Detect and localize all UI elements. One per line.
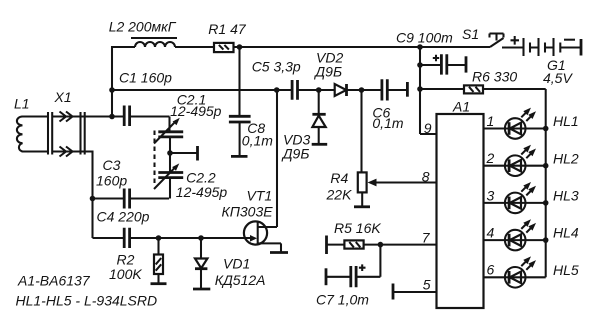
svg-text:C2.2: C2.2 <box>186 169 216 185</box>
svg-text:L2 200мкГ: L2 200мкГ <box>109 19 177 35</box>
wire L2 to R1 <box>175 46 214 48</box>
wire C5 to VD2 <box>298 89 336 91</box>
wire X1 bottom to corner <box>85 152 93 239</box>
terminal bar R5 left <box>325 236 328 255</box>
node dot HL2 <box>543 163 549 169</box>
svg-text:R5 16K: R5 16K <box>334 220 381 236</box>
node dot VD1 <box>198 235 204 241</box>
terminal bar VD1 <box>193 288 210 291</box>
svg-text:R4: R4 <box>330 170 348 186</box>
L2 core line <box>131 37 177 39</box>
svg-text:22K: 22K <box>326 187 353 203</box>
variable capacitor C2.2 <box>154 153 183 199</box>
svg-text:HL5: HL5 <box>553 262 579 278</box>
svg-text:C9 100m: C9 100m <box>396 30 453 46</box>
svg-text:0,1m: 0,1m <box>242 132 273 148</box>
LED rail <box>545 89 547 277</box>
node dot C2 rotor <box>167 150 173 156</box>
node dot row y90 <box>109 87 115 93</box>
capacitor C5 <box>292 80 297 100</box>
wire C7 riser <box>379 245 381 277</box>
wire R5 to pin7 <box>364 244 437 246</box>
wire L1 bottom lead <box>22 150 49 152</box>
wire L1 top lead <box>22 115 49 117</box>
svg-text:R6 330: R6 330 <box>472 69 517 85</box>
svg-text:C4 220p: C4 220p <box>97 209 150 225</box>
wire top rail left <box>112 46 135 48</box>
terminal bar VT1 source <box>270 251 288 254</box>
wire row y90 <box>112 89 292 91</box>
svg-text:VT1: VT1 <box>247 188 273 204</box>
transistor VT1 <box>244 90 281 253</box>
wire rail R1 to S1 <box>234 46 491 48</box>
node dot R2 <box>156 235 162 241</box>
wire X1 top to C1 <box>52 115 124 117</box>
node dot row1/left vertical <box>109 114 115 120</box>
connector X1 <box>48 112 85 157</box>
terminal bar C8 <box>231 155 248 158</box>
LED HL3 <box>484 182 546 213</box>
terminal bar VD3 <box>312 143 328 146</box>
node dot detector out <box>359 87 365 93</box>
terminal bar C6 <box>406 82 409 97</box>
capacitor C7 <box>326 264 380 287</box>
terminal bar C7 left <box>325 268 328 285</box>
node dot C3 row <box>90 196 96 202</box>
diode VD1 <box>195 238 207 289</box>
svg-text:12-495p: 12-495p <box>170 103 222 119</box>
svg-text:7: 7 <box>422 230 431 246</box>
inductor L2 <box>135 42 175 47</box>
svg-text:100K: 100K <box>109 266 142 282</box>
capacitor C3 <box>124 189 129 209</box>
svg-text:HL2: HL2 <box>553 150 579 166</box>
svg-text:2: 2 <box>486 150 495 166</box>
capacitor C1 <box>124 106 129 127</box>
node dot HL4 <box>543 237 549 243</box>
left vertical wire <box>111 46 113 117</box>
switch S1 <box>490 34 524 48</box>
svg-text:C1 160p: C1 160p <box>119 69 172 85</box>
svg-text:HL1: HL1 <box>553 113 579 129</box>
svg-text:1: 1 <box>487 113 495 129</box>
svg-text:КП303Е: КП303Е <box>222 204 274 220</box>
svg-text:S1: S1 <box>462 26 479 42</box>
node dot VT1 drain <box>274 87 280 93</box>
node dot rail/supply <box>417 44 423 50</box>
capacitor C4 <box>124 228 129 248</box>
svg-text:R1 47: R1 47 <box>208 21 247 37</box>
node dot VD3 <box>316 87 322 93</box>
wire C3 row <box>93 197 170 199</box>
resistor R6 <box>420 85 546 93</box>
svg-text:X1: X1 <box>54 89 72 105</box>
node dot R6 tap <box>417 86 423 92</box>
svg-text:C7 1,0m: C7 1,0m <box>316 291 369 307</box>
resistor R2 <box>154 238 163 284</box>
wire C6 right <box>387 89 407 91</box>
wire pin 9 <box>420 133 437 135</box>
svg-text:КД512А: КД512А <box>215 272 266 288</box>
resistor R5 <box>327 240 364 248</box>
LED HL5 <box>484 256 546 287</box>
svg-text:3: 3 <box>487 187 495 203</box>
variable capacitor C2.1 <box>154 118 183 153</box>
svg-text:4,5V: 4,5V <box>543 70 573 86</box>
wire C1 to C2.1 <box>130 115 170 117</box>
LED HL4 <box>484 219 546 250</box>
pin 5 wire <box>393 291 437 293</box>
terminal bar G1 <box>580 39 583 56</box>
svg-text:0,1m: 0,1m <box>372 115 403 131</box>
capacitor C6 <box>382 79 387 100</box>
svg-text:5: 5 <box>423 277 431 293</box>
wire X1 bottom row <box>52 150 84 152</box>
LED HL1 <box>484 108 546 139</box>
wire rotor to bar <box>170 152 198 154</box>
capacitor C9 <box>420 54 466 74</box>
svg-text:12-495p: 12-495p <box>176 184 228 200</box>
inductor L1 <box>17 117 23 152</box>
battery G1 <box>511 36 582 56</box>
diode VD2 <box>335 84 347 96</box>
mechanical link C2 (dashed) <box>153 131 155 185</box>
svg-text:HL4: HL4 <box>553 225 579 241</box>
terminal bar R2 <box>151 282 167 285</box>
node dot HL3 <box>543 200 549 206</box>
node dot pin7 <box>378 242 384 248</box>
svg-text:160p: 160p <box>96 173 127 189</box>
terminal bar R4 <box>354 205 370 208</box>
svg-text:Д9Б: Д9Б <box>281 146 310 162</box>
terminal bar pin5 <box>392 284 395 300</box>
svg-text:HL3: HL3 <box>553 188 579 204</box>
svg-text:6: 6 <box>487 262 495 278</box>
svg-text:C5 3,3p: C5 3,3p <box>252 59 301 75</box>
resistor R1 <box>214 43 234 52</box>
svg-text:4: 4 <box>487 225 495 241</box>
wire VD2 to C6 <box>347 89 382 91</box>
supply vertical <box>419 47 421 134</box>
potentiometer R4 <box>358 90 437 207</box>
LED HL2 <box>484 145 546 176</box>
svg-text:A1-BA6137: A1-BA6137 <box>17 273 91 289</box>
wire C2.1 top lead <box>168 117 170 132</box>
node dot C9 tap <box>417 62 423 68</box>
svg-text:C3: C3 <box>103 157 121 173</box>
node dot HL1 <box>543 126 549 132</box>
svg-text:VD1: VD1 <box>223 256 250 272</box>
capacitor C8 <box>229 116 251 156</box>
svg-text:9: 9 <box>424 120 432 136</box>
IC A1 box <box>437 114 484 308</box>
terminal bar C2 rotor <box>196 146 199 161</box>
svg-text:A1: A1 <box>452 99 470 115</box>
wire C4 row / VT1 gate <box>93 237 252 239</box>
svg-text:HL1-HL5 - L-934LSRD: HL1-HL5 - L-934LSRD <box>16 293 158 309</box>
svg-text:L1: L1 <box>14 96 30 112</box>
wire C8 vertical <box>238 47 240 116</box>
svg-text:8: 8 <box>422 169 430 185</box>
diode VD3 <box>312 90 325 144</box>
terminal bar C9 <box>465 56 468 72</box>
svg-text:Д9Б: Д9Б <box>313 64 342 80</box>
node dot rail/C8 <box>237 44 243 50</box>
